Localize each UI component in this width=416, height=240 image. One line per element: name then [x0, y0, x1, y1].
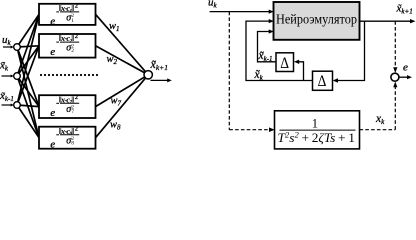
svg-text:xk: xk — [375, 113, 385, 126]
wire output arrow — [151, 78, 172, 82]
wire box1 to output node (w1) — [96, 14, 149, 74]
svg-text:x̃k: x̃k — [0, 60, 9, 73]
block plant transfer function — [275, 111, 360, 149]
wire dashed riser to summer — [393, 82, 397, 130]
svg-text:e: e — [50, 107, 55, 119]
wire x~_k-1 feedback — [258, 29, 277, 61]
wire dashed branch from u_k down — [228, 12, 230, 130]
svg-text:2: 2 — [75, 126, 78, 133]
wire fan input u_k to all boxes — [17, 14, 39, 137]
wire box2 to output node (w2) — [96, 46, 149, 75]
wire branch into upper delta — [294, 60, 304, 81]
svg-text:e: e — [403, 61, 408, 73]
wire dashed into plant — [229, 127, 274, 132]
svg-text:2: 2 — [71, 48, 74, 54]
block delay upper — [276, 53, 294, 72]
wire plant output dashed — [360, 129, 396, 131]
svg-text:1: 1 — [312, 117, 318, 131]
node circle input x~_k-1 — [14, 102, 21, 109]
svg-text:2: 2 — [75, 3, 78, 10]
wire u_k stub arrow — [3, 46, 14, 49]
formula box1: e^-(||x-c1||^2/sigma1^2) — [50, 3, 79, 28]
formula box2: e^-(||x-c2||^2/sigma2^2) — [50, 33, 79, 58]
wire box3 to output node (w7) — [96, 75, 149, 107]
wire error output e — [399, 75, 412, 79]
svg-text:e: e — [50, 46, 55, 58]
wire solid drop to lower delta — [337, 21, 365, 80]
svg-text:Δ: Δ — [318, 73, 327, 90]
svg-text:1: 1 — [71, 18, 74, 24]
svg-text:x̃k-1: x̃k-1 — [258, 50, 273, 63]
svg-text:T2s2 + 2ζTs + 1: T2s2 + 2ζTs + 1 — [278, 131, 356, 145]
wire dashed drop to summer — [393, 21, 397, 73]
svg-text:8: 8 — [71, 141, 74, 147]
wire x~_k stub arrow — [2, 75, 14, 78]
svg-text:x̃k+1: x̃k+1 — [396, 2, 413, 15]
svg-text:Δ: Δ — [280, 55, 289, 72]
dotted separator — [40, 74, 98, 76]
node circle input x~_k — [14, 73, 21, 80]
RBF box 4 — [39, 127, 96, 149]
wire u_k input — [210, 10, 274, 14]
svg-text:e: e — [50, 139, 55, 151]
formula box3: e^-(||x-c7||^2/sigma7^2) — [50, 94, 79, 119]
node output circle — [144, 71, 152, 79]
wire x~_k feedback — [246, 19, 313, 81]
wire emulator output — [360, 19, 416, 23]
svg-text:w8: w8 — [110, 119, 121, 131]
wire fan input x~_k-1 to all boxes — [17, 14, 39, 137]
wire x~_k-1 stub arrow — [2, 104, 14, 107]
node summing junction — [391, 73, 399, 81]
block delay lower — [313, 71, 333, 90]
svg-text:x̃k-1: x̃k-1 — [0, 90, 14, 103]
formula box4: e^-(||x-c8||^2/sigma8^2) — [50, 126, 79, 151]
svg-text:7: 7 — [71, 109, 74, 115]
svg-text:e: e — [50, 16, 55, 28]
RBF box 2 — [39, 34, 96, 58]
svg-text:2: 2 — [75, 33, 78, 40]
svg-text:uk: uk — [208, 0, 218, 10]
arrowhead into lower delta — [333, 78, 338, 82]
fraction bar plant — [280, 129, 356, 131]
svg-text:2: 2 — [75, 94, 78, 101]
svg-text:x̃k: x̃k — [254, 69, 264, 82]
node circle input u_k — [14, 44, 21, 51]
block neuroemulator — [274, 2, 360, 40]
wire fan input x~_k to all boxes — [17, 14, 39, 137]
svg-text:w2: w2 — [107, 54, 118, 66]
svg-text:x̃k+1: x̃k+1 — [150, 57, 168, 72]
svg-text:Нейроэмулятор: Нейроэмулятор — [276, 13, 357, 28]
svg-text:w7: w7 — [111, 95, 122, 107]
svg-text:uk: uk — [2, 34, 12, 47]
RBF box 1 — [39, 4, 96, 25]
RBF box 3 — [39, 95, 96, 118]
svg-text:w1: w1 — [109, 21, 120, 33]
wire box4 to output node (w8) — [96, 75, 149, 138]
